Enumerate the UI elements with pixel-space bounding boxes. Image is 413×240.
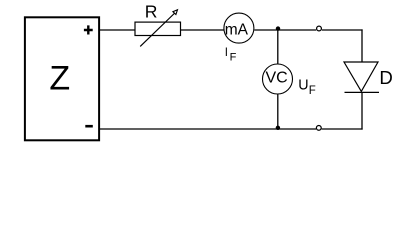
wire diode down to bottom corner <box>361 92 363 129</box>
wire top junction down to voltmeter <box>277 30 279 64</box>
resistor R1 body <box>135 22 181 35</box>
svg-text:mA: mA <box>225 22 249 39</box>
minus terminal label <box>85 125 93 128</box>
wire voltmeter down to bottom junction <box>277 94 279 129</box>
wire top terminal to corner <box>322 29 363 31</box>
node top junction <box>276 26 280 30</box>
wire bottom rail <box>99 128 317 130</box>
diode D <box>344 62 379 92</box>
svg-text:Z: Z <box>49 60 70 98</box>
voltmeter U2 (VC) <box>263 64 293 94</box>
svg-text:F: F <box>309 85 316 97</box>
wire bottom terminal to corner <box>322 128 363 130</box>
svg-text:I: I <box>225 47 228 59</box>
resistor R1 wiper arrow <box>140 10 177 47</box>
label UF <box>298 78 316 97</box>
wire ammeter to top terminal <box>254 29 316 31</box>
ammeter U1 (mA) <box>224 13 254 43</box>
svg-text:D: D <box>379 67 392 88</box>
wire right branch down to diode <box>361 29 363 62</box>
node bottom junction <box>276 126 280 130</box>
plus terminal label <box>84 25 93 34</box>
source Z <box>25 17 99 140</box>
svg-text:R: R <box>145 2 158 22</box>
terminal bottom (open) <box>316 126 321 131</box>
svg-text:U: U <box>298 78 308 94</box>
terminal top (open) <box>317 26 322 31</box>
svg-text:VC: VC <box>265 69 287 86</box>
label IF <box>225 47 237 64</box>
wire box to resistor <box>99 29 135 31</box>
wire resistor to ammeter <box>181 29 225 31</box>
svg-text:F: F <box>230 52 237 64</box>
